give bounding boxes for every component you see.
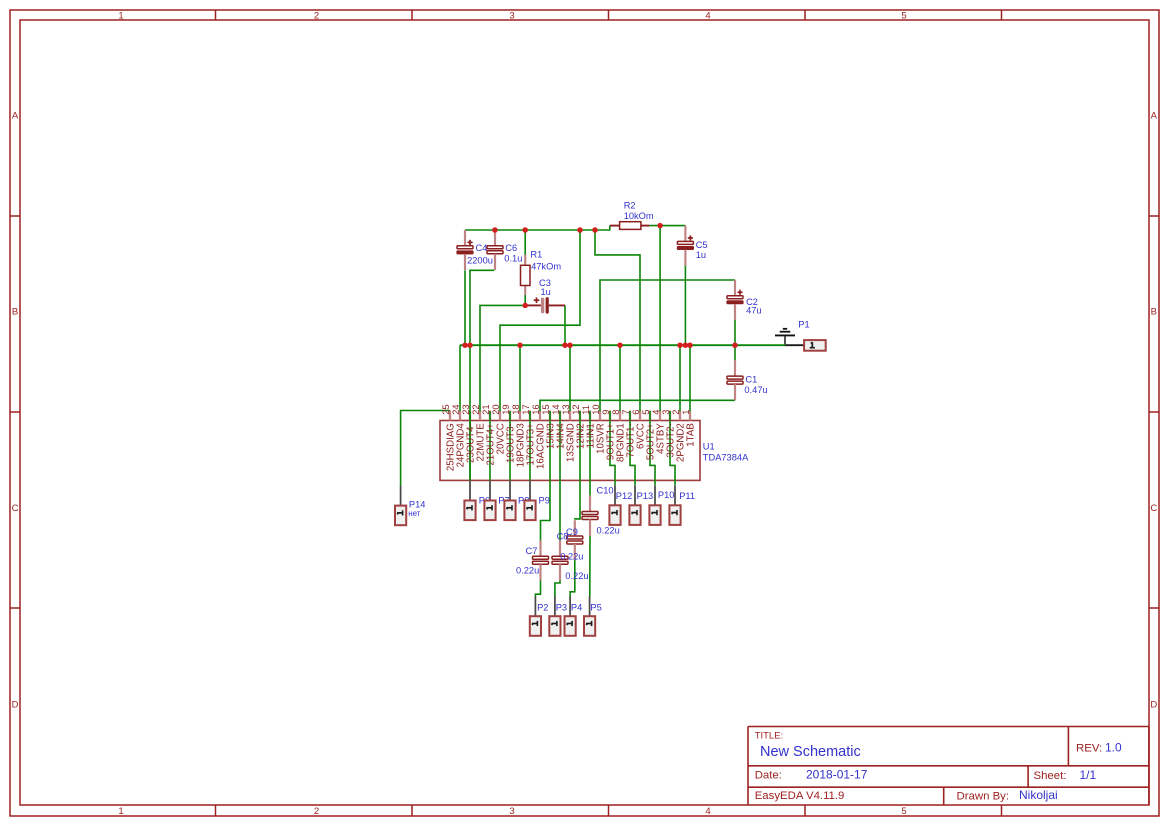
capacitor C7 0.22u <box>533 541 549 581</box>
U1 pin 5 lead <box>649 411 651 421</box>
U1 pin 17 lead <box>529 411 531 421</box>
U1 pin 20 VCC text <box>490 404 507 454</box>
U1 pin 25 HSDIAG text <box>440 404 457 471</box>
svg-text:P13: P13 <box>637 491 654 501</box>
connector P4 <box>565 596 576 636</box>
svg-text:47u: 47u <box>746 306 762 316</box>
U1 pin 5 OUT2+ text <box>640 410 657 461</box>
svg-text:New Schematic: New Schematic <box>760 744 861 760</box>
U1 pin 19 OUT3- text <box>500 404 517 463</box>
U1 pin 12 lead <box>579 411 581 421</box>
wire C9 bottom to P4 <box>570 560 575 597</box>
svg-text:C4: C4 <box>476 243 488 253</box>
junction dot 14 <box>683 342 689 348</box>
svg-text:1u: 1u <box>541 287 551 297</box>
wire pin7 to P13 <box>630 411 635 485</box>
wire GND bus to pin8 <box>619 345 621 411</box>
U1 pin 2 PGND2 text <box>670 410 687 462</box>
U1 pin 11 lead <box>589 411 591 421</box>
svg-text:1.0: 1.0 <box>1105 741 1122 755</box>
U1 pin 22 lead <box>479 411 481 421</box>
U1 pin 15 lead <box>549 411 551 421</box>
svg-text:P11: P11 <box>679 491 695 501</box>
wire VCC top rail <box>465 229 610 231</box>
junction dot 9 <box>517 342 523 348</box>
U1 pin 10 SVR text <box>590 404 607 454</box>
U1 pin 1 lead <box>689 411 691 421</box>
wire R2 right to C5 <box>649 225 685 227</box>
U1 pin 24 lead <box>459 411 461 421</box>
svg-text:P4: P4 <box>571 602 582 612</box>
wire C6 bottom jog to pin23 / P6 <box>470 270 494 480</box>
U1 pin 3 OUT2- text <box>660 410 677 458</box>
junction dot 8 <box>467 342 473 348</box>
wire pin3 to P11 <box>670 411 675 485</box>
svg-text:47kOm: 47kOm <box>531 262 561 272</box>
U1 pin 21 OUT4+ text <box>480 404 497 465</box>
svg-text:D: D <box>1150 700 1157 711</box>
connector P10 <box>649 485 660 525</box>
U1 pin 12 IN2 text <box>570 404 587 449</box>
junction dot 2 <box>522 227 528 233</box>
U1 pin 17 OUT3+ text <box>520 404 537 465</box>
U1 pin 20 lead <box>499 411 501 421</box>
U1 pin 8 lead <box>619 411 621 421</box>
wire R1 top to rail <box>524 230 526 255</box>
connector P6 <box>464 481 475 521</box>
svg-text:TDA7384A: TDA7384A <box>703 453 749 463</box>
svg-text:Drawn By:: Drawn By: <box>957 791 1010 803</box>
capacitor C6 0.1u <box>487 230 503 270</box>
svg-text:P3: P3 <box>556 602 567 612</box>
capacitor C9 0.22u <box>567 520 583 560</box>
connector P5 <box>584 596 595 636</box>
wire GND bus to C1 top <box>734 345 736 360</box>
wire pin19 to P8 <box>509 411 511 481</box>
wire R2 left jog <box>609 226 611 231</box>
svg-text:P1: P1 <box>798 319 809 329</box>
wire C3 right to GND bus <box>564 305 566 345</box>
svg-text:C9: C9 <box>566 527 578 537</box>
svg-text:Nikoljai: Nikoljai <box>1019 788 1058 802</box>
wire SVR: pin10 up and over to C2 <box>600 280 735 411</box>
junction dot 15 <box>687 342 693 348</box>
svg-text:10kOm: 10kOm <box>624 211 654 221</box>
U1 pin 6 lead <box>639 411 641 421</box>
svg-text:B: B <box>12 307 18 318</box>
svg-text:1: 1 <box>118 10 123 21</box>
wire C2 bottom to GND bus <box>734 320 736 345</box>
svg-text:Date:: Date: <box>755 770 782 782</box>
svg-text:C6: C6 <box>505 243 517 253</box>
ground symbol <box>775 329 795 345</box>
svg-text:0.22u: 0.22u <box>516 565 539 575</box>
connector P9 <box>524 481 535 521</box>
capacitor C4 2200u <box>457 230 474 270</box>
svg-text:R2: R2 <box>624 200 636 210</box>
svg-text:1: 1 <box>680 410 691 415</box>
svg-text:U1: U1 <box>703 442 715 452</box>
wire VCC rail to pin6 VCC <box>595 230 640 411</box>
wire pin17 to P9 <box>529 411 531 481</box>
svg-text:0.22u: 0.22u <box>597 526 620 536</box>
capacitor C8 0.22u <box>552 540 568 580</box>
junction dot 16 <box>732 342 738 348</box>
U1 pin 9 OUT1+ text <box>600 410 617 461</box>
wire R1 bottom to node <box>524 295 526 306</box>
svg-text:P10: P10 <box>658 490 675 500</box>
svg-text:P12: P12 <box>616 491 633 501</box>
svg-text:2: 2 <box>314 806 319 817</box>
svg-text:B: B <box>1151 307 1157 318</box>
U1 pin 25 lead <box>449 411 451 421</box>
svg-text:P9: P9 <box>539 495 550 505</box>
junction dot 10 <box>562 342 568 348</box>
svg-text:0.22u: 0.22u <box>565 571 588 581</box>
connector P2 <box>530 596 541 636</box>
wire MUTE node to pin22 <box>480 305 525 411</box>
svg-text:C: C <box>1150 503 1157 514</box>
junction dot 3 <box>577 227 583 233</box>
svg-text:C5: C5 <box>696 240 708 250</box>
wire pin11 IN1 to C10 <box>589 411 591 496</box>
svg-text:P5: P5 <box>590 602 601 612</box>
U1 pin 16 ACGND text <box>530 404 547 469</box>
junction dot 11 <box>567 342 573 348</box>
U1 pin 11 IN1 text <box>580 405 597 448</box>
wire GND bus to pin2 <box>679 345 681 411</box>
U1 pin 1 TAB text <box>680 410 697 447</box>
U1 pin 4 lead <box>659 411 661 421</box>
wire C1 bottom to pin16 ACGND <box>540 400 735 411</box>
svg-text:1/1: 1/1 <box>1080 768 1097 782</box>
U1 pin 6 VCC text <box>630 410 647 449</box>
capacitor C3 1u (horizontal, polarized) <box>525 297 565 313</box>
U1 pin 21 lead <box>489 411 491 421</box>
svg-text:0.22u: 0.22u <box>560 552 583 562</box>
wire GND bus <box>460 344 785 346</box>
U1 pin 10 lead <box>599 411 601 421</box>
connector P1 (horizontal) <box>785 340 826 351</box>
wire GND bus to pin13 <box>569 345 571 411</box>
wire pin5 to P10 <box>650 411 655 485</box>
capacitor C1 0.47u <box>727 360 743 400</box>
svg-text:A: A <box>12 111 19 122</box>
svg-text:3: 3 <box>509 10 514 21</box>
junction dot 13 <box>677 342 683 348</box>
U1 pin 13 lead <box>569 411 571 421</box>
op-amp U1 TDA7384A (IC box) <box>440 421 700 481</box>
wire GND bus to pin18 <box>519 345 521 411</box>
wire GND bus to pin1 <box>689 345 691 411</box>
wire C5 bottom to GND bus <box>684 266 686 346</box>
connector P12 <box>609 485 620 525</box>
svg-text:R1: R1 <box>530 250 542 260</box>
svg-text:C1: C1 <box>745 374 757 384</box>
wire pin12 IN2 to C9 <box>575 411 580 520</box>
U1 pin 2 lead <box>679 411 681 421</box>
svg-text:4: 4 <box>705 806 710 817</box>
wire pin25 HSDIAG to P14 <box>401 411 450 486</box>
U1 pin 19 lead <box>509 411 511 421</box>
wire pin14 IN4 to C8 <box>559 411 561 540</box>
wire C10 bottom to P5 <box>589 536 591 597</box>
U1 pin 23 OUT4- text <box>460 404 477 463</box>
svg-text:нет: нет <box>408 509 421 518</box>
resistor R2 10kOm <box>610 222 650 230</box>
svg-text:1u: 1u <box>696 250 706 260</box>
wire C7 bottom to P2 <box>535 580 540 596</box>
U1 pin 14 IN4 text <box>550 404 567 449</box>
wire pin9 to P12 <box>610 411 615 485</box>
wire pin15 IN3 to C7 <box>541 411 551 541</box>
U1 pin 9 lead <box>609 411 611 421</box>
svg-text:5: 5 <box>901 10 906 21</box>
svg-text:A: A <box>1151 111 1158 122</box>
svg-text:D: D <box>12 700 19 711</box>
junction dot 5 <box>657 223 663 229</box>
svg-text:1TAB: 1TAB <box>686 423 697 447</box>
U1 pin 13 SGND text <box>560 404 577 462</box>
wire pin21 to P7 <box>489 411 491 481</box>
title block <box>748 727 1149 806</box>
svg-text:1: 1 <box>118 806 123 817</box>
U1 pin 16 lead <box>539 411 541 421</box>
connector P14 <box>395 486 406 526</box>
svg-text:2200u: 2200u <box>467 256 493 266</box>
junction dot 7 <box>462 342 468 348</box>
svg-text:0.47u: 0.47u <box>744 385 767 395</box>
connector P11 <box>669 485 680 525</box>
U1 pin 7 OUT1- text <box>620 410 637 458</box>
U1 pin 18 PGND3 text <box>510 404 527 467</box>
U1 pin 7 lead <box>629 411 631 421</box>
U1 pin 8 PGND1 text <box>610 410 627 462</box>
connector P8 <box>504 481 515 521</box>
U1 pin 24 PGND4 text <box>450 404 467 467</box>
svg-text:P2: P2 <box>537 602 548 612</box>
svg-text:C10: C10 <box>597 486 614 496</box>
wire STBY: R2 node down to pin4 <box>659 226 661 412</box>
junction dot 1 <box>492 227 498 233</box>
svg-text:4: 4 <box>705 10 710 21</box>
wire C8 bottom to P3 <box>555 580 560 596</box>
U1 pin 15 IN3 text <box>540 404 557 449</box>
svg-text:EasyEDA V4.11.9: EasyEDA V4.11.9 <box>755 790 845 802</box>
U1 pin 3 lead <box>669 411 671 421</box>
svg-text:3: 3 <box>509 806 514 817</box>
U1 pin 4 STBY text <box>650 410 667 454</box>
wire GND bus to pin24 <box>459 345 461 411</box>
svg-text:REV:: REV: <box>1076 743 1102 755</box>
U1 pin 22 MUTE text <box>470 404 487 461</box>
wire VCC rail to pin20: down jog <box>500 230 580 411</box>
connector P13 <box>629 485 640 525</box>
capacitor C10 0.22u <box>582 496 598 536</box>
junction dot 12 <box>617 342 623 348</box>
svg-text:TITLE:: TITLE: <box>755 731 784 742</box>
svg-text:C: C <box>12 503 19 514</box>
svg-text:2: 2 <box>314 10 319 21</box>
svg-text:5: 5 <box>901 806 906 817</box>
junction dot 6 <box>522 303 528 309</box>
svg-text:0.1u: 0.1u <box>504 254 522 264</box>
capacitor C2 47u <box>727 280 744 320</box>
svg-text:Sheet:: Sheet: <box>1034 770 1067 782</box>
connector P3 <box>549 596 560 636</box>
svg-text:2018-01-17: 2018-01-17 <box>806 768 868 782</box>
U1 pin 18 lead <box>519 411 521 421</box>
svg-text:C7: C7 <box>526 546 538 556</box>
U1 pin 14 lead <box>559 411 561 421</box>
U1 pin 23 lead <box>469 411 471 421</box>
wire C4 bottom to GND bus <box>464 270 466 345</box>
junction dot 4 <box>592 227 598 233</box>
wire pin23 through box to P6 <box>469 411 471 481</box>
capacitor C5 1u <box>677 226 694 266</box>
connector P7 <box>484 481 495 521</box>
resistor R1 47kOm <box>521 255 531 295</box>
